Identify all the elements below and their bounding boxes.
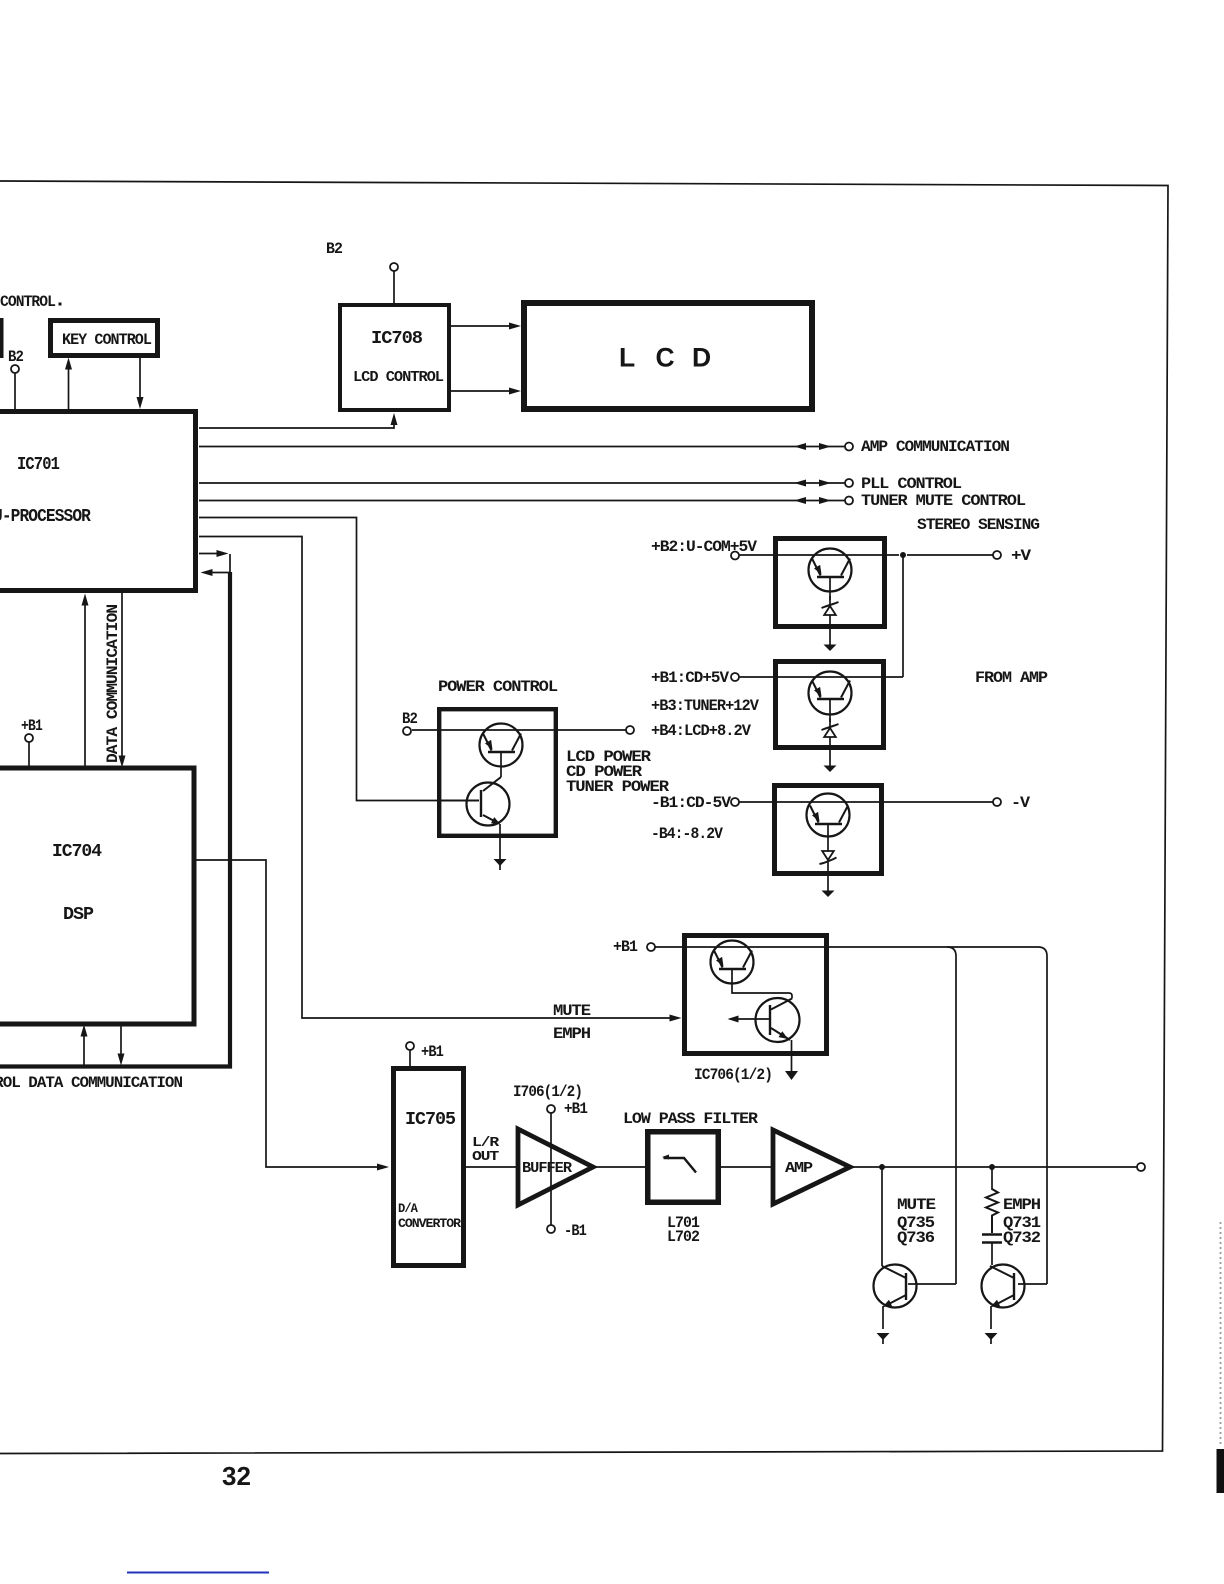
svg-text:L: L — [619, 343, 635, 373]
svg-text:LCD CONTROL: LCD CONTROL — [353, 369, 444, 386]
svg-text:IC706(1/2): IC706(1/2) — [694, 1066, 772, 1084]
svg-text:DATA COMMUNICATION: DATA COMMUNICATION — [104, 605, 122, 763]
svg-text:EMPH: EMPH — [553, 1025, 590, 1043]
svg-text:OUT: OUT — [472, 1149, 499, 1165]
svg-text:+V: +V — [1011, 547, 1032, 565]
svg-text:C: C — [656, 343, 675, 373]
svg-text:L702: L702 — [667, 1228, 699, 1246]
svg-text:CONTROL: CONTROL — [0, 293, 55, 311]
svg-text:Q732: Q732 — [1003, 1229, 1040, 1247]
svg-text:-B1: -B1 — [564, 1222, 586, 1240]
svg-text:B2: B2 — [326, 240, 342, 258]
svg-text:IC705: IC705 — [405, 1110, 455, 1130]
svg-text:PLL CONTROL: PLL CONTROL — [861, 475, 961, 493]
svg-text:IC708: IC708 — [371, 329, 422, 349]
svg-text:I706(1/2): I706(1/2) — [513, 1083, 582, 1101]
svg-text:TUNER MUTE CONTROL: TUNER MUTE CONTROL — [861, 492, 1025, 510]
svg-text:IC701: IC701 — [17, 455, 60, 475]
svg-text:32: 32 — [222, 1461, 251, 1491]
svg-text:MUTE: MUTE — [897, 1196, 935, 1214]
svg-text:STEREO SENSING: STEREO SENSING — [917, 516, 1039, 534]
svg-text:AMP: AMP — [785, 1160, 813, 1177]
svg-text:-B4:-8.2V: -B4:-8.2V — [651, 825, 723, 843]
svg-text:KEY CONTROL: KEY CONTROL — [62, 331, 151, 349]
svg-text:+B1: +B1 — [564, 1100, 587, 1118]
svg-text:LOW PASS FILTER: LOW PASS FILTER — [623, 1110, 758, 1128]
svg-text:D: D — [692, 343, 711, 373]
svg-text:FROM AMP: FROM AMP — [975, 669, 1047, 687]
svg-text:POWER CONTROL: POWER CONTROL — [438, 678, 557, 696]
svg-text:AMP COMMUNICATION: AMP COMMUNICATION — [861, 438, 1009, 456]
svg-text:U-PROCESSOR: U-PROCESSOR — [0, 507, 91, 527]
svg-text:B2: B2 — [402, 710, 417, 728]
svg-text:-V: -V — [1011, 794, 1030, 812]
svg-text:EMPH: EMPH — [1003, 1196, 1040, 1214]
svg-text:+B3:TUNER+12V: +B3:TUNER+12V — [651, 697, 759, 715]
svg-text:B2: B2 — [8, 348, 23, 366]
svg-text:CONTROL DATA COMMUNICATION: CONTROL DATA COMMUNICATION — [0, 1074, 182, 1092]
svg-text:+B1: +B1 — [613, 938, 637, 956]
svg-text:BUFFER: BUFFER — [522, 1160, 572, 1177]
svg-text:-B1:CD-5V: -B1:CD-5V — [651, 794, 731, 812]
svg-text:+B1:CD+5V: +B1:CD+5V — [651, 669, 729, 687]
svg-text:MUTE: MUTE — [553, 1002, 590, 1020]
svg-text:CONVERTOR: CONVERTOR — [398, 1216, 461, 1231]
svg-text:+B2:U-COM+5V: +B2:U-COM+5V — [651, 538, 757, 556]
svg-text:+B1: +B1 — [421, 1043, 443, 1061]
svg-text:IC704: IC704 — [52, 842, 102, 862]
svg-text:DSP: DSP — [63, 905, 94, 925]
svg-text:D/A: D/A — [398, 1201, 418, 1216]
svg-text:Q736: Q736 — [897, 1229, 934, 1247]
svg-text:+B4:LCD+8.2V: +B4:LCD+8.2V — [651, 722, 751, 740]
svg-text:+B1: +B1 — [21, 717, 42, 735]
